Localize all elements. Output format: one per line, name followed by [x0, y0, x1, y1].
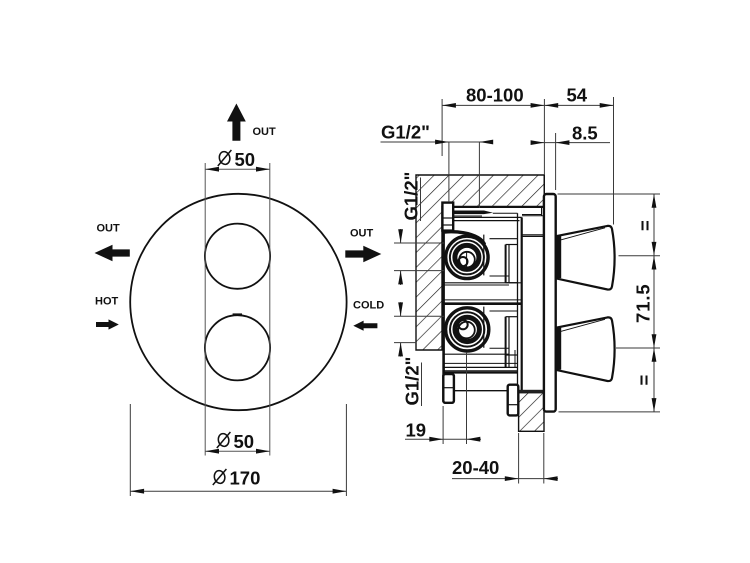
wall face line above plate [543, 175, 545, 195]
svg-text:71.5: 71.5 [633, 283, 654, 323]
dimension Ø50 top [205, 163, 270, 456]
cartridge bottom circles [446, 308, 489, 351]
body left face [442, 231, 445, 402]
svg-text:G1/2": G1/2" [402, 357, 423, 406]
cartridge nut front bottom [506, 317, 517, 368]
svg-text:19: 19 [406, 420, 427, 441]
wall hatch L-shape [416, 175, 544, 431]
arrow COLD [353, 321, 377, 331]
knob marker notch [233, 313, 242, 315]
svg-text:HOT: HOT [95, 296, 119, 308]
top knob circle Ø50 [205, 224, 270, 289]
port channel wedge [454, 211, 493, 215]
svg-text:50: 50 [235, 149, 256, 170]
svg-text:8.5: 8.5 [572, 123, 598, 144]
chamber right wall [483, 235, 485, 348]
cartridge top circles [446, 236, 488, 278]
body inner top lines [454, 207, 544, 221]
arrow OUT right [345, 246, 381, 262]
svg-text:80-100: 80-100 [466, 85, 524, 106]
chamber separator lines [444, 239, 522, 373]
svg-text:G1/2": G1/2" [401, 172, 422, 221]
svg-text:G1/2": G1/2" [381, 122, 430, 143]
dimension Ø50 bottom [205, 450, 270, 452]
svg-text:OUT: OUT [253, 126, 277, 138]
svg-text:170: 170 [230, 468, 261, 489]
elbow arc top [445, 232, 485, 245]
svg-text:54: 54 [567, 85, 588, 106]
arrow OUT top [227, 104, 246, 141]
mounting bar [454, 390, 508, 392]
dimension 80-100 [442, 97, 613, 225]
knob 2 (bottom) [556, 317, 615, 381]
port channel lines [493, 212, 518, 214]
knob 1 (top) [556, 226, 615, 290]
inlet stub G1/2 top [442, 203, 453, 231]
svg-text:50: 50 [234, 431, 255, 452]
bottom knob circle Ø50 [205, 315, 270, 380]
svg-text:=: = [634, 375, 655, 386]
dimension Ø170 [130, 404, 346, 496]
box rim bottom band [518, 390, 544, 393]
svg-text:20-40: 20-40 [452, 457, 499, 478]
svg-text:=: = [635, 220, 656, 231]
body top line [453, 207, 544, 216]
svg-text:COLD: COLD [353, 300, 384, 312]
box front rim [518, 213, 544, 392]
mounting foot right [508, 385, 519, 416]
mounting foot left [443, 374, 454, 403]
wall plate (escutcheon) [544, 194, 556, 412]
svg-text:OUT: OUT [350, 228, 374, 240]
face plate circle Ø170 [130, 194, 346, 410]
svg-text:OUT: OUT [97, 223, 121, 235]
right chain dimension [558, 194, 661, 412]
wall hatch bottom patch [519, 393, 544, 432]
arrow HOT [96, 319, 119, 329]
cartridge nut front top [506, 245, 517, 283]
arrow OUT left [95, 245, 130, 261]
